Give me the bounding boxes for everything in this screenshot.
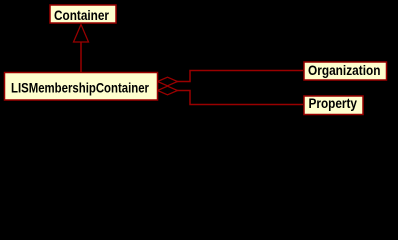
class box Organization — [304, 62, 387, 80]
wire: aggregation to Property — [177, 91, 303, 105]
svg-text:LISMembershipContainer: LISMembershipContainer — [11, 81, 150, 96]
svg-text:Property: Property — [309, 96, 358, 111]
class box LISMembershipContainer — [5, 73, 158, 101]
svg-text:Container: Container — [54, 8, 110, 23]
generalization hollow triangle arrowhead — [74, 25, 89, 43]
aggregation diamond (Property) — [158, 86, 178, 95]
class box Container — [50, 5, 116, 23]
class box Property — [304, 96, 363, 115]
svg-text:Organization: Organization — [308, 63, 381, 78]
generalization wire from LISMembershipContainer to Container — [80, 42, 82, 72]
wire: aggregation to Organization — [177, 71, 303, 82]
aggregation diamond (Organization) — [158, 77, 178, 86]
